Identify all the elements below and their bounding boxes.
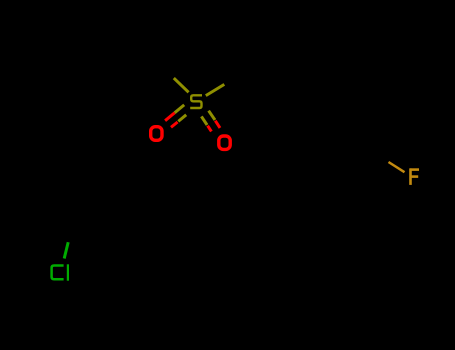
node S: atom label S (190, 95, 202, 108)
node Cl: atom label Cl (green) (52, 266, 64, 280)
wire: S=O right double bond, outer line S-half (olive) (209, 111, 215, 120)
wire: C-S bond right (S half, olive) (206, 84, 225, 95)
wire: S=O right double bond, inner line O-half (red) (208, 126, 212, 132)
wire: C-S bond left (S half, olive) (174, 78, 189, 92)
wire: C-F bond (F half, goldenrod) (389, 162, 405, 172)
node F: atom label F (goldenrod) (410, 168, 419, 185)
node O right: atom label O (red), drawn as rounded-rect ring (219, 136, 230, 149)
wire: S=O left double bond, inner line O-half (red) (171, 122, 178, 127)
wire: S=O left double bond, inner line S-half (olive) (178, 115, 186, 122)
wire: S=O right double bond, outer line O-half (red) (215, 121, 220, 128)
wire: S=O right double bond, inner line S-half (olive) (201, 116, 207, 125)
node Cl: letter l bar (67, 264, 69, 280)
wire: C-Cl bond (Cl half, green) (64, 242, 68, 258)
wire: S=O left double bond, outer line S-half (olive) (175, 105, 185, 113)
wire: S=O left double bond, outer line O-half (red) (165, 113, 175, 121)
node O left: atom label O (red), drawn as rounded-rect ring (151, 127, 162, 141)
